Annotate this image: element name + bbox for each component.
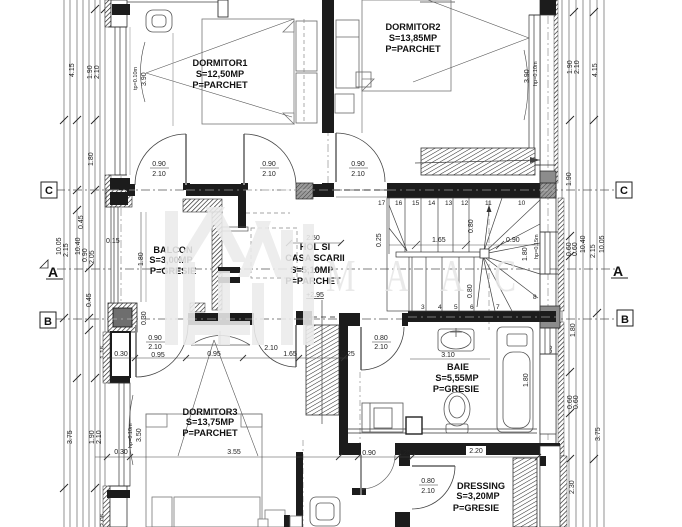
- right wall insulation strips: [554, 0, 558, 183]
- grid marker B right: [617, 310, 633, 326]
- svg-text:1.90: 1.90: [87, 65, 94, 79]
- svg-text:0.60: 0.60: [572, 242, 579, 256]
- left exterior wall core segments: [111, 0, 127, 27]
- svg-text:hp=0.10m: hp=0.10m: [533, 61, 539, 86]
- stairs window right: [540, 232, 550, 274]
- hall small rects: [284, 515, 290, 527]
- svg-text:S=5,55MP: S=5,55MP: [435, 373, 478, 383]
- dormitor2 window right: [529, 15, 540, 165]
- svg-text:1.80: 1.80: [523, 373, 530, 387]
- upper winder diagonals left: [389, 205, 407, 251]
- dormitor2 bed: [362, 0, 451, 91]
- dormitor1 view diagonals: [146, 19, 294, 73]
- top wall stub between dormitor1 zones: [218, 0, 228, 17]
- dormitor3 dresser: [191, 336, 250, 346]
- right winder fan lower: [483, 256, 540, 274]
- svg-text:0.30: 0.30: [114, 351, 128, 358]
- svg-text:0.95: 0.95: [207, 351, 221, 358]
- watermark letters: [326, 250, 516, 302]
- svg-text:0.90: 0.90: [362, 450, 376, 457]
- door dormitor3 right leaf+arc: [295, 325, 297, 367]
- open passage dashes at hall top: [334, 189, 387, 191]
- grid line B: [56, 318, 617, 320]
- svg-text:14: 14: [428, 200, 436, 207]
- tread numbers upper: [376, 200, 537, 311]
- left wall bottom segment: [110, 486, 127, 527]
- left exterior wall insulation strip segments: [105, 0, 111, 27]
- svg-text:2.10: 2.10: [94, 65, 101, 79]
- baie sink: [438, 329, 474, 351]
- column at row B center: [296, 311, 312, 325]
- svg-text:0.90: 0.90: [152, 161, 166, 168]
- grid marker C left: [41, 182, 57, 198]
- svg-text:M: M: [326, 250, 355, 302]
- svg-text:0.90: 0.90: [506, 237, 520, 244]
- svg-text:B: B: [621, 314, 629, 326]
- svg-text:P=GRESIE: P=GRESIE: [433, 384, 479, 394]
- dormitor3 wardrobe hatched: [306, 325, 339, 415]
- svg-text:6: 6: [470, 304, 474, 311]
- svg-text:10.40: 10.40: [75, 237, 82, 255]
- svg-text:A: A: [385, 250, 409, 302]
- right wall junction block at stairs top: [540, 183, 556, 198]
- svg-text:10.05: 10.05: [56, 237, 63, 255]
- svg-text:S=13,85MP: S=13,85MP: [389, 33, 437, 43]
- svg-text:0.80: 0.80: [467, 284, 474, 298]
- svg-text:2.05: 2.05: [89, 250, 96, 264]
- hatched column at row C: [296, 183, 313, 199]
- wall axis vertical right: [547, 0, 549, 527]
- dormitor2 wardrobe left: [336, 20, 359, 88]
- svg-text:4.15: 4.15: [592, 63, 599, 77]
- right wall gray column upper: [540, 171, 556, 193]
- svg-text:2.15: 2.15: [63, 243, 70, 257]
- dormitor3 view diagonals: [178, 340, 214, 456]
- right wall top segment: [540, 0, 556, 15]
- column at C x left wall: [110, 178, 130, 198]
- door dormitor1 (row C) leaf+arc: [185, 134, 187, 185]
- tick marks right: [566, 8, 601, 463]
- wall row C: segment between doors: [186, 184, 244, 196]
- baie toilet: [444, 392, 470, 426]
- svg-text:16: 16: [395, 200, 403, 207]
- svg-text:13: 13: [445, 200, 453, 207]
- right rotated dimension texts: [522, 60, 606, 494]
- wall row B: segment between dorm3 doors: [188, 313, 254, 325]
- right exterior wall outline: [539, 0, 541, 527]
- svg-text:0.45: 0.45: [78, 215, 85, 229]
- svg-text:P=GRESIE: P=GRESIE: [453, 503, 499, 513]
- baie bench: [362, 403, 403, 432]
- svg-text:0.30: 0.30: [114, 449, 128, 456]
- ticks row y357: [132, 355, 138, 361]
- svg-text:DORMITOR2: DORMITOR2: [386, 22, 441, 32]
- svg-text:1.90: 1.90: [567, 60, 574, 74]
- svg-text:3.75: 3.75: [67, 430, 74, 444]
- svg-text:4: 4: [438, 304, 442, 311]
- section marker A left: [40, 260, 48, 268]
- svg-text:2.10: 2.10: [96, 430, 103, 444]
- svg-text:0.45: 0.45: [86, 293, 93, 307]
- dormitor3 bedside: [265, 510, 285, 527]
- svg-text:2.10: 2.10: [421, 488, 435, 495]
- dressing wardrobe hatched: [513, 458, 537, 527]
- left rotated dimension texts: [56, 63, 107, 527]
- stair dim line: [389, 244, 540, 246]
- svg-text:0.90: 0.90: [351, 161, 365, 168]
- svg-text:0.25: 0.25: [341, 351, 355, 358]
- svg-text:0.90: 0.90: [148, 335, 162, 342]
- grid marker C right: [616, 182, 632, 198]
- door2 hall (row C) leaf+arc: [243, 134, 245, 185]
- svg-text:A: A: [440, 250, 464, 302]
- svg-text:7: 7: [496, 304, 500, 311]
- svg-text:0.90: 0.90: [82, 248, 89, 262]
- svg-text:0.80: 0.80: [468, 219, 475, 233]
- direction arrow line: [477, 210, 489, 307]
- svg-text:0.15: 0.15: [106, 238, 120, 245]
- dormitor2 sliding wardrobe hatched: [421, 148, 535, 175]
- dormitor3 bed: [146, 414, 262, 527]
- right wall gray column at B: [540, 306, 560, 328]
- svg-text:2.10: 2.10: [574, 60, 581, 74]
- right wall segment below baie window: [540, 354, 556, 434]
- svg-text:DORMITOR3: DORMITOR3: [183, 407, 238, 417]
- svg-text:tp=0.10m: tp=0.10m: [133, 66, 139, 90]
- svg-text:1.80: 1.80: [88, 152, 95, 166]
- baie window right: [540, 328, 550, 354]
- left dimension chain lines: [63, 0, 65, 527]
- svg-text:11: 11: [485, 200, 492, 207]
- dormitor1 bed: [202, 19, 294, 124]
- svg-text:1.65: 1.65: [283, 351, 297, 358]
- interior dim row y456: [95, 456, 541, 458]
- wall row C: segment right of door2: [296, 184, 334, 197]
- grid line C: [56, 189, 617, 191]
- svg-text:S=12,50MP: S=12,50MP: [196, 69, 244, 79]
- svg-text:3: 3: [421, 304, 425, 311]
- svg-text:0.80: 0.80: [421, 478, 435, 485]
- main wall band below baie: [342, 443, 539, 455]
- svg-text:2.10: 2.10: [262, 171, 276, 178]
- dormitor3 window left: [119, 383, 130, 486]
- dormitor1 window left: [115, 27, 126, 175]
- balcon right wall hatched: [212, 212, 222, 310]
- svg-text:5: 5: [454, 304, 458, 311]
- chimney D-shape top left: [146, 10, 172, 32]
- svg-text:C: C: [45, 185, 53, 197]
- baie dark box: [406, 417, 422, 434]
- door hall-lower leaf+arc: [360, 455, 362, 495]
- handrail: [396, 252, 480, 257]
- svg-text:1.80: 1.80: [138, 252, 145, 266]
- svg-text:DRESSING: DRESSING: [457, 481, 505, 491]
- svg-text:0.80: 0.80: [374, 335, 388, 342]
- watermark logo: [165, 207, 314, 345]
- interior wall dormitor1/dormitor2 lower stub: [322, 183, 334, 197]
- svg-text:1.90: 1.90: [566, 172, 573, 186]
- svg-text:S=3,20MP: S=3,20MP: [456, 491, 499, 501]
- stairs bottom wall: [408, 311, 554, 322]
- svg-text:1.65: 1.65: [432, 237, 446, 244]
- svg-text:DORMITOR1: DORMITOR1: [193, 58, 248, 68]
- svg-text:10.05: 10.05: [599, 235, 606, 253]
- column at B x left wall: [108, 303, 137, 332]
- lower flight treads: [408, 254, 410, 311]
- stairs top wall: [387, 183, 554, 198]
- svg-text:P=PARCHET: P=PARCHET: [182, 428, 238, 438]
- svg-text:hp=0.15m: hp=0.15m: [534, 234, 540, 259]
- wall axis vertical left: [120, 0, 122, 527]
- door dormitor3 left leaf+arc: [135, 325, 137, 377]
- svg-text:3.50: 3.50: [136, 428, 143, 442]
- svg-text:A: A: [48, 264, 58, 280]
- right winder fan upper: [483, 198, 502, 254]
- stair well outline: [387, 198, 540, 311]
- left wall segment below B: [111, 332, 130, 377]
- svg-text:2.10: 2.10: [148, 344, 162, 351]
- svg-text:10: 10: [518, 200, 526, 207]
- door dormitor2 leaf+arc: [335, 133, 337, 182]
- wall stub below door2: [238, 188, 246, 228]
- wall row C: segment left of door1: [127, 184, 135, 196]
- svg-text:2.10: 2.10: [374, 344, 388, 351]
- interior dim row y357: [107, 357, 348, 359]
- wall dorm3 / baie vertical: [339, 313, 348, 323]
- svg-text:3.10: 3.10: [441, 352, 455, 359]
- svg-text:2.30: 2.30: [569, 480, 576, 494]
- svg-text:2.10: 2.10: [351, 171, 365, 178]
- svg-text:17: 17: [378, 200, 386, 207]
- svg-text:8: 8: [533, 294, 537, 301]
- svg-text:3.90: 3.90: [141, 72, 148, 86]
- right wall junction at baie bottom: [539, 443, 560, 455]
- dressing left wall: [399, 455, 410, 466]
- balcon french window left: [111, 207, 118, 303]
- svg-text:S=13,75MP: S=13,75MP: [186, 417, 234, 427]
- axis through stairs: [488, 183, 490, 330]
- dormitor3 window label: [129, 395, 133, 465]
- svg-text:C: C: [494, 250, 516, 302]
- right dimension chain lines: [561, 0, 563, 527]
- svg-text:10.40: 10.40: [580, 235, 587, 253]
- svg-text:2.15: 2.15: [590, 244, 597, 258]
- svg-text:2.10: 2.10: [152, 171, 166, 178]
- upper flight treads: [388, 198, 390, 254]
- dashed overhead cabinet: [251, 228, 297, 278]
- right wall junction block at stairs bottom: [540, 311, 556, 322]
- svg-text:4.15: 4.15: [69, 63, 76, 77]
- baie room bottom edge: [348, 428, 537, 430]
- svg-text:0.60: 0.60: [573, 395, 580, 409]
- svg-text:2.20: 2.20: [469, 448, 483, 455]
- baie bathtub: [497, 327, 533, 432]
- svg-text:0.25: 0.25: [376, 233, 383, 247]
- dormitor1 window label bracket: [141, 42, 146, 102]
- grid line A: [57, 268, 615, 270]
- svg-text:3.55: 3.55: [227, 449, 241, 456]
- svg-text:2.10: 2.10: [264, 345, 278, 352]
- hall left wall: [296, 452, 303, 527]
- svg-text:C: C: [620, 185, 628, 197]
- svg-text:1.90: 1.90: [89, 430, 96, 444]
- hinge blocks row C: [183, 183, 190, 190]
- hall lower seat: [310, 497, 340, 526]
- door baie leaf+arc: [360, 327, 362, 370]
- svg-text:P=PARCHET: P=PARCHET: [192, 80, 248, 90]
- svg-text:15: 15: [412, 200, 420, 207]
- svg-text:B: B: [44, 316, 52, 328]
- shaft niche bars: [218, 267, 240, 273]
- baie top wall segments: [348, 313, 360, 326]
- dormitor2 window label: [524, 50, 528, 120]
- axis lower hall: [302, 440, 304, 527]
- interior wall dormitor1/dormitor2 upper: [322, 0, 334, 133]
- right wall dressing segment: [540, 446, 560, 527]
- svg-text:1.80: 1.80: [570, 323, 577, 337]
- svg-text:0.90: 0.90: [262, 161, 276, 168]
- svg-text:1.80: 1.80: [522, 247, 529, 261]
- tick marks left: [60, 5, 109, 492]
- svg-text:P=PARCHET: P=PARCHET: [385, 44, 441, 54]
- svg-text:3.90: 3.90: [524, 69, 531, 83]
- grid marker B left: [40, 312, 56, 328]
- svg-text:3.75: 3.75: [595, 427, 602, 441]
- balcon top wall hatched: [183, 199, 222, 212]
- door dressing leaf+arc: [412, 465, 455, 467]
- svg-text:BAIE: BAIE: [447, 362, 469, 372]
- ticks row y456: [104, 454, 110, 460]
- svg-text:A: A: [613, 263, 623, 279]
- svg-text:0.30: 0.30: [141, 311, 148, 325]
- svg-text:hp=0.10m: hp=0.10m: [128, 423, 134, 448]
- svg-text:12: 12: [461, 200, 469, 207]
- dormitor2 view diagonals: [428, 0, 529, 38]
